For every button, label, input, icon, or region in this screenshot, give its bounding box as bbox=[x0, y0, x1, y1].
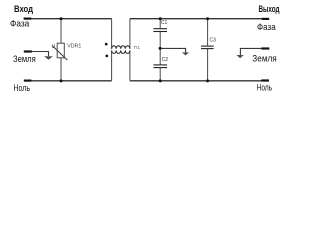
ground input earth bbox=[44, 56, 53, 60]
varistor VDR1 diagonal bbox=[52, 46, 67, 60]
svg-text:Выход: Выход bbox=[259, 4, 280, 14]
svg-text:Земля: Земля bbox=[252, 53, 277, 63]
ground output earth bbox=[236, 55, 243, 58]
transformer Tr1 primary winding bbox=[112, 46, 130, 49]
wire VDR1 top lead bbox=[60, 19, 62, 44]
node bottom rail / VDR1 bbox=[60, 79, 63, 82]
wire transformer Tr1 right secondary riser bbox=[129, 50, 131, 80]
wire C2 bottom lead bbox=[159, 68, 161, 81]
wire top rail input segment bbox=[31, 18, 112, 20]
terminal input neutral bbox=[24, 79, 32, 81]
varistor VDR1 body bbox=[57, 43, 64, 58]
wire input earth bbox=[32, 52, 49, 57]
capacitor C3 bottom plate bbox=[201, 48, 214, 50]
svg-text:C3: C3 bbox=[210, 38, 217, 44]
svg-text:VDR1: VDR1 bbox=[67, 43, 81, 49]
wire C1-C2 middle link bbox=[159, 32, 161, 64]
svg-text:Фаза: Фаза bbox=[10, 18, 29, 28]
terminal output neutral bbox=[261, 79, 269, 81]
wire VDR1 bottom lead bbox=[60, 58, 62, 81]
node top rail / C1 bbox=[159, 17, 162, 20]
wire C1 top lead bbox=[159, 19, 161, 29]
svg-text:U: U bbox=[52, 44, 56, 50]
transformer Tr1 polarity dot primary bbox=[105, 43, 108, 46]
wire transformer Tr1 left primary riser bbox=[111, 19, 113, 49]
wire C3 top lead bbox=[207, 19, 209, 46]
wire bottom rail output segment bbox=[130, 80, 262, 82]
svg-text:Ноль: Ноль bbox=[257, 83, 273, 93]
capacitor C2 top plate bbox=[153, 64, 167, 66]
node bottom rail / C3 bbox=[206, 79, 209, 82]
terminal output earth bbox=[261, 47, 269, 49]
terminal input earth bbox=[24, 50, 32, 52]
node bottom rail / C2 bbox=[159, 79, 162, 82]
capacitor C1 bottom plate bbox=[153, 31, 167, 33]
svg-text:Земля: Земля bbox=[13, 54, 36, 64]
svg-text:Фаза: Фаза bbox=[257, 22, 276, 32]
ground middle (C1/C2 midpoint) bbox=[182, 52, 189, 55]
terminal output phase bbox=[262, 18, 269, 20]
capacitor C2 bottom plate bbox=[153, 67, 167, 69]
transformer Tr1 polarity dot secondary bbox=[105, 55, 108, 58]
svg-text:Вход: Вход bbox=[14, 4, 33, 14]
wire bottom rail input segment bbox=[31, 80, 112, 82]
terminal input phase bbox=[24, 18, 32, 20]
wire output earth bbox=[240, 48, 261, 55]
svg-text:Ноль: Ноль bbox=[14, 83, 31, 93]
wire transformer Tr1 left secondary riser bbox=[111, 50, 113, 80]
node top rail / VDR1 bbox=[60, 17, 63, 20]
wire middle ground branch bbox=[160, 48, 185, 52]
node top rail / C3 bbox=[206, 17, 209, 20]
svg-text:C2: C2 bbox=[162, 57, 169, 63]
svg-text:C1: C1 bbox=[161, 20, 168, 26]
transformer Tr1 secondary winding bbox=[112, 50, 130, 53]
capacitor C3 top plate bbox=[201, 45, 214, 47]
capacitor C1 top plate bbox=[153, 28, 167, 30]
wire transformer Tr1 right primary riser bbox=[129, 19, 131, 49]
wire top rail output segment bbox=[130, 18, 262, 20]
svg-text:Tr1: Tr1 bbox=[133, 45, 140, 50]
node C1/C2 midpoint bbox=[159, 47, 162, 50]
wire C3 bottom lead bbox=[207, 49, 209, 81]
